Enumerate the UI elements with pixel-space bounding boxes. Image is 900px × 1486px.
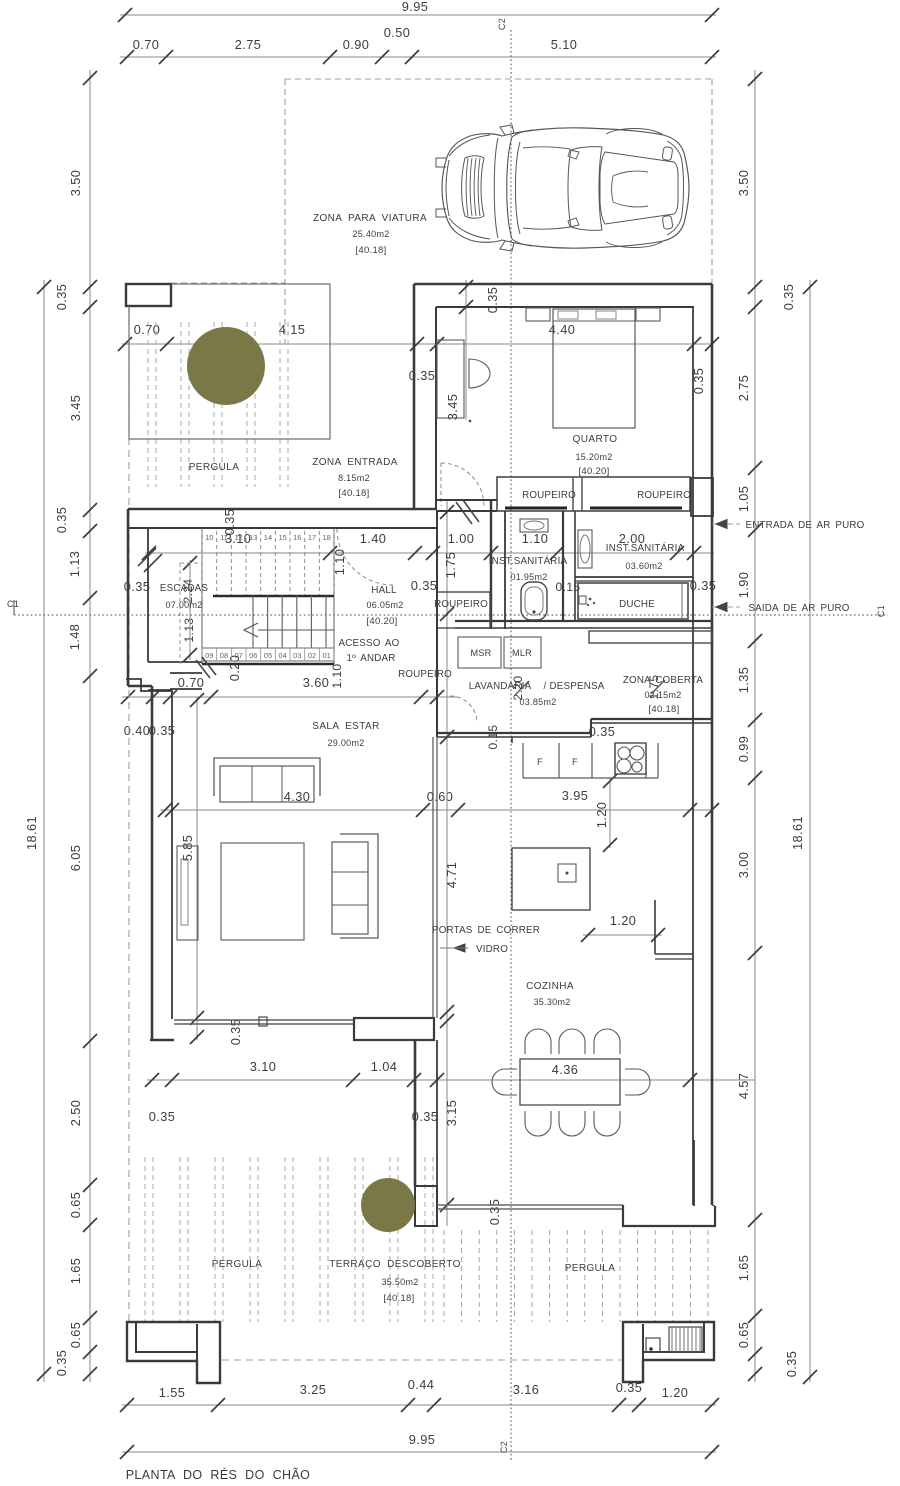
svg-text:1.05: 1.05 <box>736 486 751 513</box>
car mirrors <box>500 125 514 135</box>
stairs direction arrow <box>244 623 258 637</box>
svg-text:4.36: 4.36 <box>552 1062 579 1077</box>
car deck seam <box>494 138 498 238</box>
wall between wc2 and duche y577 <box>575 576 693 578</box>
svg-text:PERGULA: PERGULA <box>189 462 240 473</box>
stairs upper flight dashed treads <box>201 531 203 596</box>
bathroom north wall band y500-511 <box>437 499 497 501</box>
dim chain bottom 9.95 <box>122 1451 716 1453</box>
svg-text:3.60: 3.60 <box>303 675 330 690</box>
svg-text:MSR: MSR <box>470 648 491 658</box>
sofa 2 vertical <box>340 834 378 938</box>
wall top north (quarto) outline <box>414 283 712 286</box>
svg-text:2.75: 2.75 <box>235 37 262 52</box>
stairs inner dim line x190 <box>189 560 191 660</box>
svg-text:8.15m2: 8.15m2 <box>338 473 370 483</box>
vertical dim x197 5.85 <box>196 697 198 1040</box>
dim chain left outer 18.61 <box>43 280 45 1382</box>
dim line y810 4.30/0.60/3.95 <box>160 809 712 811</box>
sofa 1 horizontal <box>214 758 320 796</box>
svg-text:0.35: 0.35 <box>487 1199 502 1226</box>
car frunk handle bracket <box>613 171 648 176</box>
svg-text:1.00: 1.00 <box>448 531 475 546</box>
svg-text:11: 11 <box>220 533 228 542</box>
car rear nose inner line <box>446 160 449 216</box>
zona coberta north ledge y631-643 <box>589 631 712 643</box>
svg-text:4.71: 4.71 <box>444 862 459 889</box>
terrace east wall x415/x437 <box>414 1040 417 1186</box>
dim chain top row2 0.70/2.75/0.90/0.50/5.10 <box>120 56 716 58</box>
svg-text:25.40m2: 25.40m2 <box>352 229 389 239</box>
svg-text:[40.20]: [40.20] <box>366 616 397 627</box>
MLR box <box>504 637 541 668</box>
svg-text:INST.SANITÁRIA: INST.SANITÁRIA <box>606 543 685 554</box>
svg-text:PLANTA DO RÉS DO CHÃO: PLANTA DO RÉS DO CHÃO <box>126 1467 311 1482</box>
dim line y344 0.70/4.15/4.40 <box>122 343 712 345</box>
svg-text:18.61: 18.61 <box>24 816 39 850</box>
wall x491/x505 <box>490 500 492 629</box>
svg-text:35.50m2: 35.50m2 <box>381 1277 418 1287</box>
svg-text:0.90: 0.90 <box>343 37 370 52</box>
svg-text:C2: C2 <box>499 1441 509 1453</box>
dim chain right inner <box>754 70 756 1382</box>
planter-right inner box with dot <box>646 1338 660 1352</box>
svg-text:0.35: 0.35 <box>784 1351 799 1378</box>
opening slashes west wall <box>138 548 156 566</box>
svg-text:0.35: 0.35 <box>589 724 616 739</box>
glass door mid stile marker <box>259 1017 267 1026</box>
svg-text:[40.18]: [40.18] <box>383 1293 414 1304</box>
svg-text:0.35: 0.35 <box>485 287 500 314</box>
svg-text:13: 13 <box>249 533 257 542</box>
planter bottom-left <box>127 1322 220 1383</box>
svg-text:08: 08 <box>220 651 228 660</box>
terrace hatch right single stripes <box>443 1230 445 1322</box>
svg-text:02: 02 <box>308 651 316 660</box>
svg-text:01.95m2: 01.95m2 <box>510 572 547 582</box>
svg-text:[40.18]: [40.18] <box>648 704 679 715</box>
svg-text:0.35: 0.35 <box>222 509 237 536</box>
chair right <box>625 1069 650 1095</box>
dim line y1080 3.10/1.04/4.36 <box>147 1079 755 1081</box>
svg-text:3.25: 3.25 <box>300 1382 327 1397</box>
svg-text:9.95: 9.95 <box>402 0 429 14</box>
svg-text:3.95: 3.95 <box>562 788 589 803</box>
west wall sala x152/x172 <box>151 686 154 1040</box>
svg-text:4.57: 4.57 <box>736 1073 751 1100</box>
wc1 sink <box>520 519 548 532</box>
svg-text:3.45: 3.45 <box>68 395 83 422</box>
svg-text:03.85m2: 03.85m2 <box>519 697 556 707</box>
label entrada de ar puro <box>712 523 740 525</box>
svg-text:PORTAS DE CORRER: PORTAS DE CORRER <box>432 925 540 936</box>
MSR box <box>458 637 501 668</box>
svg-text:18: 18 <box>322 533 330 542</box>
svg-text:4.15: 4.15 <box>279 322 306 337</box>
svg-text:0.35: 0.35 <box>54 507 69 534</box>
svg-text:0.44: 0.44 <box>408 1377 435 1392</box>
centerline C2 vertical dotted <box>510 30 512 1462</box>
svg-text:09: 09 <box>205 651 213 660</box>
zona viatura dashed boundary <box>285 78 712 80</box>
svg-text:29.00m2: 29.00m2 <box>327 738 364 748</box>
svg-text:F: F <box>572 757 578 767</box>
sala west wall end block <box>150 1039 174 1041</box>
bathrooms south wall band y621-628 <box>455 620 712 622</box>
kitchen north wall (zona coberta south) <box>591 718 712 720</box>
svg-text:ROUPEIRO: ROUPEIRO <box>637 490 691 501</box>
svg-text:HALL: HALL <box>371 585 397 596</box>
dashed link between planters y1360 <box>222 1359 621 1361</box>
svg-text:PERGULA: PERGULA <box>565 1263 616 1274</box>
wc2 basin <box>578 530 592 568</box>
car rear bumper guards <box>436 158 447 167</box>
svg-text:C2: C2 <box>497 18 507 30</box>
vertical dim x610 1.20 <box>609 778 611 848</box>
svg-text:1.10: 1.10 <box>522 531 549 546</box>
svg-text:07: 07 <box>234 651 242 660</box>
chair left <box>492 1069 517 1095</box>
svg-text:5.10: 5.10 <box>551 37 578 52</box>
svg-text:[40.18]: [40.18] <box>338 488 369 499</box>
svg-text:LAVANDARIA: LAVANDARIA <box>469 681 532 692</box>
svg-text:1.20: 1.20 <box>662 1385 689 1400</box>
svg-text:0.35: 0.35 <box>228 1019 243 1046</box>
kitchen south glass door <box>437 1204 623 1206</box>
svg-text:03: 03 <box>293 651 301 660</box>
svg-text:C1: C1 <box>876 605 886 617</box>
svg-text:1.65: 1.65 <box>736 1255 751 1282</box>
svg-text:07.00m2: 07.00m2 <box>165 600 202 610</box>
label saida de ar puro <box>712 606 740 608</box>
car a-pillar joins <box>512 130 532 137</box>
tree circle bottom (terraco) <box>361 1178 415 1232</box>
svg-text:ACESSO AO: ACESSO AO <box>339 638 400 649</box>
svg-text:1.40: 1.40 <box>360 531 387 546</box>
svg-text:ZONA COBERTA: ZONA COBERTA <box>623 675 704 686</box>
svg-text:0.65: 0.65 <box>68 1322 83 1349</box>
section line C1 horizontal dotted <box>14 614 888 616</box>
svg-text:02.15m2: 02.15m2 <box>644 690 681 700</box>
pergola hatch top-left <box>147 322 149 487</box>
stairs number strip bottom <box>202 647 334 649</box>
svg-text:10: 10 <box>205 533 213 542</box>
svg-text:3.45: 3.45 <box>445 394 460 421</box>
car front wheel bumps <box>606 129 663 136</box>
svg-text:PERGULA: PERGULA <box>212 1259 263 1270</box>
svg-text:3.16: 3.16 <box>513 1382 540 1397</box>
svg-text:1.55: 1.55 <box>159 1385 186 1400</box>
svg-text:06: 06 <box>249 651 257 660</box>
svg-text:DUCHE: DUCHE <box>619 599 655 610</box>
sala south glass door (portas de correr) <box>174 1019 354 1021</box>
dim line y697 0.70/3.60 <box>122 696 457 698</box>
svg-text:0.35: 0.35 <box>149 1109 176 1124</box>
svg-text:1.20: 1.20 <box>610 913 637 928</box>
car windshield arcs <box>507 137 512 239</box>
bedside table left <box>526 308 550 321</box>
wall east inner x693 <box>692 307 694 1205</box>
svg-text:0.35: 0.35 <box>54 1350 69 1377</box>
planter bottom-right <box>623 1322 714 1382</box>
svg-text:1.10: 1.10 <box>330 664 344 689</box>
stairs landing rail line <box>213 595 334 598</box>
chairs top row <box>525 1029 551 1054</box>
kitchen south-east wall block <box>623 1205 715 1226</box>
svg-text:16: 16 <box>293 533 301 542</box>
pergola hatch bottom-left paired stripes <box>144 1157 146 1322</box>
stairs dashed outline <box>179 563 181 664</box>
svg-text:ZONA PARA VIATURA: ZONA PARA VIATURA <box>313 213 427 224</box>
wall east outer x712 <box>711 284 714 1205</box>
svg-text:QUARTO: QUARTO <box>573 434 618 445</box>
svg-text:ROUPEIRO: ROUPEIRO <box>398 669 452 680</box>
duche tray <box>578 583 688 619</box>
sideboard west wall <box>177 846 198 940</box>
svg-text:ROUPEIRO: ROUPEIRO <box>522 490 576 501</box>
car cabin rear window <box>568 147 602 231</box>
vertical dim x447 1.75/4.71/3.15 <box>446 500 448 1226</box>
dim line y553 3.10/1.40/1.00/1.10/2.00 <box>145 552 714 554</box>
svg-text:5.85: 5.85 <box>180 835 195 862</box>
svg-text:04: 04 <box>278 651 286 660</box>
svg-text:15.20m2: 15.20m2 <box>575 452 612 462</box>
svg-text:0.35: 0.35 <box>411 578 438 593</box>
svg-text:1.75: 1.75 <box>443 552 458 579</box>
stairs base line <box>202 663 334 665</box>
svg-text:1º ANDAR: 1º ANDAR <box>346 653 395 664</box>
dim chain right outer 18.61 <box>809 280 811 1382</box>
svg-text:0.65: 0.65 <box>68 1192 83 1219</box>
svg-text:MLR: MLR <box>512 648 532 658</box>
svg-text:INST.SANITÁRIA: INST.SANITÁRIA <box>489 556 568 567</box>
roupeiro east end box <box>691 478 713 516</box>
svg-text:6.05: 6.05 <box>68 845 83 872</box>
svg-text:06.05m2: 06.05m2 <box>366 600 403 610</box>
svg-text:14: 14 <box>264 533 272 542</box>
terrace south wall block outline <box>354 1018 434 1040</box>
quarto washbasin D <box>469 359 490 388</box>
svg-text:/: / <box>543 681 546 692</box>
svg-text:0.35: 0.35 <box>781 284 796 311</box>
svg-text:2.50: 2.50 <box>68 1100 83 1127</box>
sala-cozinha glass partition <box>432 737 434 1018</box>
svg-text:1.20: 1.20 <box>594 802 609 829</box>
svg-text:1.90: 1.90 <box>736 572 751 599</box>
svg-text:3.50: 3.50 <box>736 170 751 197</box>
svg-text:1.65: 1.65 <box>68 1258 83 1285</box>
terrace east wall end box <box>415 1186 437 1226</box>
svg-text:2.75: 2.75 <box>736 375 751 402</box>
dim line y935 1.20 <box>583 934 662 936</box>
pergola thin rectangle outline <box>129 284 330 439</box>
svg-text:ESCADAS: ESCADAS <box>160 583 208 594</box>
rug sala <box>221 843 304 940</box>
svg-text:0.60: 0.60 <box>427 789 454 804</box>
svg-text:9.95: 9.95 <box>409 1432 436 1447</box>
entrada west wall lower x414-436 continues as lavandaria west <box>436 510 438 737</box>
svg-text:ENTRADA DE AR PURO: ENTRADA DE AR PURO <box>745 520 864 531</box>
svg-text:01: 01 <box>322 651 330 660</box>
svg-text:0.40: 0.40 <box>124 723 151 738</box>
stove <box>615 743 646 774</box>
kitchen island <box>512 848 590 910</box>
vertical dim x466 0.35 wall <box>465 280 467 420</box>
svg-text:VIDRO: VIDRO <box>476 944 508 955</box>
entrada niche closet <box>437 340 464 418</box>
svg-text:C1: C1 <box>7 599 19 609</box>
svg-text:SALA ESTAR: SALA ESTAR <box>312 721 379 732</box>
car frunk lid <box>600 152 678 224</box>
wc1 toilet <box>521 582 547 620</box>
door arc quarto dashed <box>441 463 484 506</box>
chairs bottom row <box>525 1111 551 1136</box>
svg-text:1.13: 1.13 <box>182 618 196 643</box>
svg-text:3.10: 3.10 <box>250 1059 277 1074</box>
svg-text:0.70: 0.70 <box>133 37 160 52</box>
svg-text:0.70: 0.70 <box>178 675 205 690</box>
svg-text:[40.18]: [40.18] <box>355 245 386 256</box>
svg-text:17: 17 <box>308 533 316 542</box>
left wall lower step rect <box>126 679 172 691</box>
car rear fender sweeps <box>449 135 490 156</box>
svg-text:1.35: 1.35 <box>736 667 751 694</box>
svg-text:3.00: 3.00 <box>736 852 751 879</box>
svg-text:0.65: 0.65 <box>736 1322 751 1349</box>
car engine louvre block <box>462 156 484 219</box>
bedside table right <box>636 308 660 321</box>
hall door arc dashed <box>337 529 393 585</box>
opening slashes near stairs <box>196 660 210 678</box>
svg-text:0.99: 0.99 <box>736 736 751 763</box>
stairs lower flight solid treads <box>252 596 254 648</box>
car body silhouette <box>442 128 689 248</box>
car door top lines <box>523 147 570 149</box>
svg-text:3.15: 3.15 <box>444 1100 459 1127</box>
roupeiro band quarto <box>497 477 690 511</box>
svg-text:COZINHA: COZINHA <box>526 981 574 992</box>
svg-text:1.04: 1.04 <box>371 1059 398 1074</box>
planter-right hatched box <box>669 1327 702 1352</box>
dim chain bottom row1 <box>122 1404 716 1406</box>
svg-text:03.60m2: 03.60m2 <box>625 561 662 571</box>
car turn signals <box>662 147 673 161</box>
svg-text:0.15: 0.15 <box>556 580 581 594</box>
hall roupeiro box <box>437 592 490 628</box>
dining table <box>520 1059 620 1105</box>
svg-text:DESPENSA: DESPENSA <box>550 681 605 692</box>
dim chain left inner <box>89 70 91 1382</box>
svg-text:F: F <box>537 757 543 767</box>
despensa door arc dashed <box>450 696 477 723</box>
duche drain dots <box>579 596 586 604</box>
bed quarto <box>553 309 635 428</box>
tree circle top (pergola) <box>187 327 265 405</box>
svg-text:ZONA ENTRADA: ZONA ENTRADA <box>312 457 398 468</box>
kitchen east wall notch <box>654 900 656 954</box>
svg-text:05: 05 <box>264 651 272 660</box>
svg-text:[40.20]: [40.20] <box>578 466 609 477</box>
svg-text:TERRAÇO DESCOBERTO: TERRAÇO DESCOBERTO <box>329 1259 461 1270</box>
wall stub below stairs <box>170 672 202 674</box>
hall north wall band y509-528 <box>128 508 437 511</box>
car front bumper inner line <box>667 141 684 235</box>
west wall escadas x128/x148 <box>127 509 130 686</box>
svg-text:SAIDA DE AR PURO: SAIDA DE AR PURO <box>748 603 849 614</box>
wall top-left pillar rect <box>126 284 171 306</box>
svg-text:1.48: 1.48 <box>67 624 82 651</box>
svg-text:ROUPEIRO: ROUPEIRO <box>434 599 488 610</box>
kitchen counters <box>523 777 658 779</box>
svg-text:0.35: 0.35 <box>54 284 69 311</box>
wall x563/x575 <box>562 511 564 621</box>
svg-text:18.61: 18.61 <box>790 816 805 850</box>
dim chain top 9.95 <box>120 14 716 16</box>
svg-text:0.50: 0.50 <box>384 25 411 40</box>
car b-pillar quads <box>568 150 579 159</box>
svg-text:1.13: 1.13 <box>67 551 82 578</box>
svg-text:15: 15 <box>278 533 286 542</box>
property dashed line x129 <box>128 306 130 1322</box>
car louvre slats <box>466 158 468 216</box>
svg-text:35.30m2: 35.30m2 <box>533 997 570 1007</box>
svg-text:12: 12 <box>234 533 242 542</box>
svg-text:3.50: 3.50 <box>68 170 83 197</box>
stairs side boundary lines <box>201 528 203 664</box>
